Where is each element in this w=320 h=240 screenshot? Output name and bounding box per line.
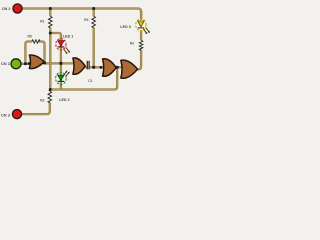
- node gate U1 output junction: [43, 61, 46, 64]
- svg-text:CN 2: CN 2: [2, 6, 12, 11]
- svg-text:LED 3: LED 3: [120, 25, 130, 29]
- svg-text:LED 2: LED 2: [59, 98, 69, 102]
- wire R4 drop from rail to C1 node: [93, 9, 95, 68]
- node gate U3 output junction: [116, 66, 119, 69]
- wire feedback loop with R5: [25, 42, 44, 64]
- resistor R2: [48, 91, 52, 103]
- node gate U3 input dot: [100, 66, 103, 69]
- wire gate U2 output to C1: [85, 66, 87, 68]
- svg-text:C1: C1: [88, 79, 92, 83]
- wire R1 to node spine down to R2 node: [49, 28, 51, 90]
- LED 2: [56, 70, 70, 84]
- wire top rail: [22, 9, 141, 20]
- wire C1 to gate U3 input: [89, 66, 102, 68]
- svg-text:R4: R4: [84, 18, 88, 22]
- capacitor C1: [87, 61, 89, 70]
- wire CN1 to gate U1 input: [21, 63, 29, 65]
- node CN1-feedback junction: [24, 62, 27, 65]
- svg-text:R5: R5: [28, 34, 32, 38]
- wire gate U4 output up through R3 to LED3: [137, 11, 141, 69]
- svg-text:R1: R1: [40, 19, 44, 23]
- node rail-R1 junction: [49, 7, 52, 10]
- connector CN1: [11, 59, 21, 69]
- wire LED2 drop: [60, 63, 62, 89]
- node rail-R4 junction: [92, 7, 95, 10]
- svg-text:R3: R3: [130, 41, 134, 45]
- resistor R1: [49, 16, 53, 28]
- svg-text:CN 3: CN 3: [1, 112, 11, 117]
- wire gate U3 output to gate U4 input: [116, 66, 121, 68]
- wire CN3 to R2: [22, 90, 50, 115]
- wire LED1 branch: [50, 33, 61, 63]
- resistor R5: [32, 40, 40, 43]
- node R2 top junction: [49, 88, 52, 91]
- connector CN2: [13, 4, 22, 13]
- gate U3: [103, 59, 117, 77]
- svg-text:R2: R2: [40, 98, 44, 102]
- LED 3: [136, 19, 150, 34]
- svg-text:CN 1: CN 1: [1, 61, 11, 66]
- node R1-LED1 tee: [49, 32, 52, 35]
- svg-text:LED 1: LED 1: [63, 34, 73, 38]
- wire bottom horizontal net with riser to gate U3 output: [50, 67, 117, 89]
- LED 1: [56, 39, 70, 54]
- node C1-R4 junction: [92, 66, 95, 69]
- resistor R4: [92, 16, 96, 28]
- gate U1: [29, 55, 44, 69]
- gate U4: [121, 60, 138, 78]
- wire R1 drop from rail: [49, 9, 51, 17]
- gate U2: [73, 58, 85, 74]
- connector CN3: [12, 110, 21, 119]
- node LED1-LED2 tap on gate1 output wire: [59, 62, 62, 65]
- wire gate U1 output to gate U2 input: [44, 62, 73, 64]
- resistor R3: [139, 40, 143, 50]
- node gate U1 input dot: [28, 62, 31, 65]
